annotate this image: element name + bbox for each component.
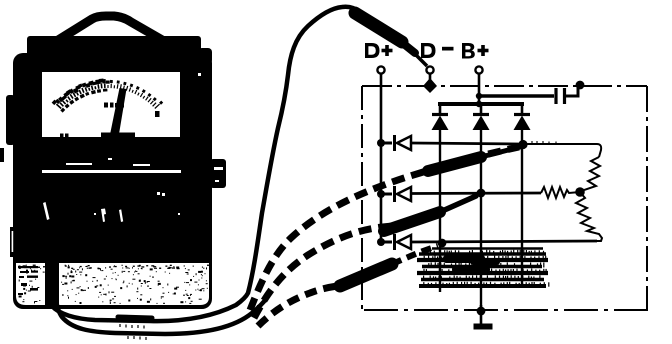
cable A boot sleeve — [428, 157, 481, 171]
capacitor junction dot — [476, 93, 482, 99]
capacitor C1 plates — [554, 88, 557, 104]
scale small text 4k — [104, 103, 124, 108]
meter top bezel bar — [27, 36, 201, 60]
D+ vertical line — [380, 74, 383, 243]
ground symbol — [474, 324, 493, 330]
meter face (white) — [42, 72, 180, 137]
cable A tip — [481, 147, 520, 157]
field diode F3 row — [377, 234, 597, 250]
knob slits — [214, 167, 223, 170]
B+ vertical line — [478, 74, 481, 107]
diode D3 (top, filled) — [514, 106, 531, 288]
field diode F2 row — [377, 186, 541, 202]
ground junction dot — [477, 307, 486, 316]
stator winding bars — [417, 249, 548, 287]
label D- — [421, 43, 454, 58]
field diode F1 row — [377, 135, 528, 151]
multimeter body — [13, 53, 212, 309]
resistor R2 (horizontal zigzag) — [541, 187, 580, 198]
label D+ — [365, 43, 393, 58]
thick sleeve on wire — [118, 317, 152, 318]
terminal B+ — [475, 66, 482, 73]
wires crossing stipple (black band) — [45, 262, 59, 308]
meter left side tab — [6, 95, 15, 145]
small ticks on row1 wire — [532, 141, 556, 145]
terminal D- — [426, 66, 433, 73]
panel slot (white line) — [42, 170, 181, 173]
positive rectifier bus bar — [438, 102, 524, 106]
label B+ — [462, 43, 489, 58]
test cable C (dashed, to phase node at diode 1) — [258, 246, 438, 326]
meter side knob — [210, 159, 226, 188]
cable B tip — [440, 196, 476, 212]
probe to D- (handle + tip) — [355, 13, 427, 66]
capacitor wire left — [480, 94, 554, 97]
winding hatch ticks — [423, 250, 549, 287]
stipple speckles — [18, 265, 209, 304]
cable C tip — [392, 246, 438, 264]
D- case junction diamond — [423, 78, 437, 93]
diode D2 (top, filled) — [473, 106, 490, 311]
capacitor top border junction dot — [576, 81, 585, 90]
diode D1 (top, filled) — [432, 106, 449, 292]
wire row1 to resistor network — [527, 144, 601, 157]
face top small mark — [86, 66, 95, 71]
heavy speckle marks left column — [18, 266, 38, 268]
bus junction dot — [476, 101, 482, 107]
meter needle — [110, 88, 127, 137]
tick marks under wires — [120, 324, 144, 329]
meter scale arc ticks — [52, 79, 164, 113]
scale small text 40 — [60, 134, 69, 138]
scale small text k — [155, 111, 160, 117]
ground stub — [480, 305, 483, 324]
white speck top right body — [198, 73, 201, 76]
white specks above slot — [66, 163, 92, 165]
white marks on lower panel — [43, 202, 50, 220]
cable C boot sleeve — [340, 264, 392, 286]
cable B boot sleeve — [384, 212, 440, 231]
meter handle — [55, 16, 164, 42]
left edge highlight sliver — [12, 231, 14, 252]
resistor node dot — [575, 187, 585, 197]
test cable A (dashed, to phase node at diode 3) — [250, 147, 520, 310]
winding heavy blobs — [443, 255, 485, 263]
alternator case border (dash-dot box) — [362, 86, 648, 310]
needle pivot blob — [101, 133, 135, 139]
terminal D+ — [377, 66, 384, 73]
meter lower stipple area (white) — [16, 263, 209, 305]
left edge outer lip — [10, 227, 14, 257]
test cable B (dashed, to phase node at diode 2) — [254, 196, 476, 318]
resistor R3 (lower vertical zigzag) — [576, 192, 602, 241]
resistor R1 (upper vertical zigzag) — [580, 157, 600, 192]
test lead wire 2 (outer, feeds clip cables) — [55, 262, 266, 334]
capacitor wire right — [566, 85, 578, 96]
test lead wire 1 (inner, continues to probe arc) — [47, 7, 359, 321]
D- stub to case — [429, 74, 432, 88]
